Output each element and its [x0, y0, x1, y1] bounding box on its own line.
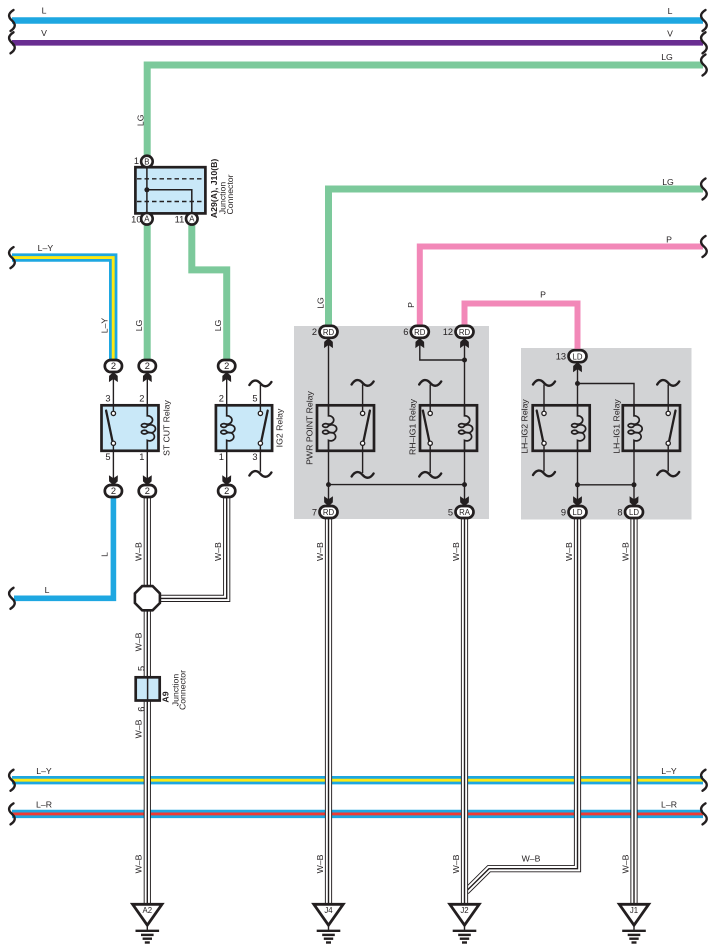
- svg-text:W–B: W–B: [564, 542, 574, 561]
- svg-text:A: A: [189, 215, 195, 224]
- svg-text:W–B: W–B: [315, 542, 325, 561]
- svg-text:9: 9: [561, 507, 566, 517]
- svg-text:RA: RA: [459, 508, 471, 517]
- svg-text:5: 5: [252, 393, 257, 403]
- svg-text:Connector: Connector: [177, 670, 187, 710]
- svg-text:L: L: [42, 6, 47, 16]
- svg-text:RD: RD: [459, 328, 471, 337]
- svg-text:LG: LG: [134, 319, 144, 331]
- svg-text:W–B: W–B: [213, 542, 223, 561]
- svg-text:P: P: [540, 290, 546, 300]
- svg-text:L–R: L–R: [661, 800, 677, 810]
- svg-text:L–Y: L–Y: [38, 243, 54, 253]
- svg-text:1: 1: [219, 452, 224, 462]
- svg-text:LH–IG2 Relay: LH–IG2 Relay: [520, 399, 530, 454]
- svg-text:L–R: L–R: [36, 800, 52, 810]
- svg-text:L: L: [100, 552, 110, 557]
- svg-text:1: 1: [134, 156, 139, 166]
- svg-text:1: 1: [139, 452, 144, 462]
- svg-text:5: 5: [105, 452, 110, 462]
- svg-text:J2: J2: [460, 906, 468, 915]
- svg-text:2: 2: [224, 361, 229, 371]
- svg-text:3: 3: [252, 452, 257, 462]
- svg-text:7: 7: [312, 507, 317, 517]
- svg-text:IG2 Relay: IG2 Relay: [275, 408, 285, 447]
- svg-text:W–B: W–B: [134, 632, 144, 651]
- svg-text:LD: LD: [629, 508, 639, 517]
- svg-text:W–B: W–B: [134, 854, 144, 873]
- svg-text:10: 10: [131, 214, 141, 224]
- svg-text:RH–IG1 Relay: RH–IG1 Relay: [407, 398, 417, 455]
- svg-text:LD: LD: [573, 508, 583, 517]
- svg-text:L–Y: L–Y: [36, 766, 52, 776]
- svg-text:W–B: W–B: [315, 854, 325, 873]
- svg-text:L: L: [45, 585, 50, 595]
- svg-text:8: 8: [617, 507, 622, 517]
- svg-text:6: 6: [403, 327, 408, 337]
- svg-text:B: B: [144, 157, 149, 166]
- svg-text:W–B: W–B: [134, 542, 144, 561]
- svg-text:13: 13: [556, 352, 566, 362]
- svg-text:12: 12: [443, 327, 453, 337]
- svg-text:L–Y: L–Y: [661, 766, 677, 776]
- svg-text:L–Y: L–Y: [99, 318, 109, 334]
- svg-text:2: 2: [224, 486, 229, 496]
- svg-text:A2: A2: [143, 906, 153, 915]
- svg-text:ST CUT Relay: ST CUT Relay: [161, 400, 171, 456]
- svg-text:P: P: [406, 302, 416, 308]
- svg-text:V: V: [667, 28, 673, 38]
- svg-text:W–B: W–B: [134, 719, 144, 738]
- svg-text:Connector: Connector: [225, 174, 235, 214]
- svg-text:A9: A9: [161, 691, 171, 702]
- svg-text:RD: RD: [323, 508, 335, 517]
- svg-text:LG: LG: [136, 114, 146, 126]
- svg-text:5: 5: [448, 507, 453, 517]
- svg-text:5: 5: [137, 666, 147, 671]
- svg-text:6: 6: [137, 707, 147, 712]
- svg-text:J1: J1: [630, 906, 638, 915]
- svg-text:P: P: [666, 235, 672, 245]
- svg-text:2: 2: [312, 327, 317, 337]
- svg-text:2: 2: [219, 393, 224, 403]
- svg-text:RD: RD: [414, 328, 426, 337]
- svg-text:LD: LD: [573, 352, 583, 361]
- svg-text:RD: RD: [323, 328, 335, 337]
- svg-text:2: 2: [145, 361, 150, 371]
- svg-text:W–B: W–B: [620, 542, 630, 561]
- svg-text:W–B: W–B: [620, 854, 630, 873]
- svg-text:LH–IG1 Relay: LH–IG1 Relay: [612, 399, 622, 454]
- svg-text:V: V: [41, 28, 47, 38]
- svg-text:W–B: W–B: [451, 854, 461, 873]
- svg-text:L: L: [668, 6, 673, 16]
- svg-text:11: 11: [175, 214, 185, 224]
- svg-text:W–B: W–B: [451, 542, 461, 561]
- svg-text:2: 2: [111, 361, 116, 371]
- svg-text:2: 2: [139, 393, 144, 403]
- svg-text:2: 2: [111, 486, 116, 496]
- svg-text:2: 2: [145, 486, 150, 496]
- svg-text:LG: LG: [315, 297, 325, 309]
- svg-text:PWR POINT Relay: PWR POINT Relay: [304, 391, 314, 465]
- svg-text:LG: LG: [213, 319, 223, 331]
- svg-text:3: 3: [105, 393, 110, 403]
- svg-text:W–B: W–B: [522, 854, 541, 864]
- svg-text:A: A: [144, 215, 150, 224]
- svg-text:J4: J4: [324, 906, 333, 915]
- svg-text:LG: LG: [662, 177, 674, 187]
- svg-text:LG: LG: [661, 52, 673, 62]
